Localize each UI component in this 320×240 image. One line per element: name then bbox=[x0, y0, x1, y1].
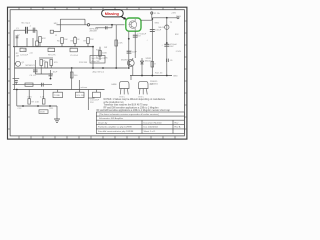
svg-text:2.2K: 2.2K bbox=[40, 97, 45, 99]
lamp DS1 bbox=[165, 25, 169, 29]
capacitor C15 bbox=[105, 26, 107, 29]
node dot H2/x93 bbox=[92, 46, 94, 48]
wire V x16.8 bbox=[16, 90, 18, 107]
wire loop top bbox=[60, 18, 85, 20]
wire stub R20 up bbox=[43, 90, 45, 99]
wire V x79.3 bbox=[78, 80, 80, 90]
sheet border frame outer bbox=[8, 7, 187, 139]
wire stub x112 up bbox=[111, 25, 113, 28]
capacitor C13 on H84.7 bbox=[42, 83, 44, 87]
wire stub S1 bbox=[57, 90, 59, 93]
resistor R6 bbox=[74, 38, 77, 44]
resistor R16 bbox=[45, 62, 48, 68]
svg-text:R12 .33: R12 .33 bbox=[155, 73, 163, 75]
resistor R9 below wire bbox=[48, 48, 55, 51]
svg-text:RF and EMI sensitive applicati: RF and EMI sensitive applications a 100k… bbox=[97, 109, 171, 112]
svg-text:1N4001: 1N4001 bbox=[145, 61, 153, 63]
wire stub y98 bbox=[88, 97, 94, 99]
terminal circle bbox=[151, 12, 153, 14]
svg-text:Rev A: Rev A bbox=[175, 126, 181, 129]
wire stub x75 bbox=[74, 36, 76, 38]
svg-text:a the production run: a the production run bbox=[104, 101, 125, 104]
wire V x35 bbox=[34, 60, 36, 74]
title block text bbox=[98, 113, 181, 133]
wire H2 bbox=[13, 46, 93, 48]
box B3 bbox=[93, 92, 101, 97]
svg-text:Schematics 5W Amplifier: Schematics 5W Amplifier bbox=[99, 117, 123, 120]
node dot bbox=[151, 18, 153, 20]
svg-text:.1 50V: .1 50V bbox=[175, 51, 182, 53]
wire stub B3 bbox=[96, 90, 98, 93]
svg-text:Amp 5W out: Amp 5W out bbox=[93, 71, 105, 74]
wire V x57 to gnd bbox=[56, 106, 58, 119]
wire stub R19 up bbox=[28, 90, 30, 99]
node dot x116b bbox=[115, 67, 117, 69]
border zone ticks right bbox=[184, 21, 187, 129]
node dot x112 bbox=[111, 24, 113, 26]
svg-text:10uF: 10uF bbox=[132, 52, 137, 54]
node dot H_mid x128.8 bbox=[128, 67, 130, 69]
diode D1 bbox=[140, 58, 143, 76]
svg-text:R13 33K: R13 33K bbox=[79, 62, 88, 64]
resistor R2 bbox=[36, 41, 39, 46]
svg-text:Transistor bias matches the BU: Transistor bias matches the BUX 48 70 am… bbox=[104, 104, 149, 107]
svg-text:Drawn by: Drawn by bbox=[98, 121, 108, 124]
resistor R17 bbox=[50, 60, 53, 66]
wire step horizontal bbox=[54, 31, 61, 33]
wire H1 main top bbox=[57, 24, 125, 26]
svg-text:25V: 25V bbox=[90, 102, 94, 104]
callout arrow bbox=[121, 16, 125, 18]
transistor Q1 bbox=[16, 61, 21, 66]
capacitor C14 bbox=[49, 74, 53, 76]
node dot x50.5 bbox=[50, 78, 52, 80]
wire stub x27 bbox=[26, 38, 28, 47]
svg-text:GND: GND bbox=[173, 76, 178, 78]
node dot H_mid x103 bbox=[102, 67, 104, 69]
svg-text:Doc 20020304: Doc 20020304 bbox=[144, 127, 159, 129]
wire cap to right bbox=[27, 29, 37, 31]
wire H4 bbox=[13, 89, 105, 91]
wire V right1 bbox=[166, 18, 168, 76]
svg-text:47K: 47K bbox=[42, 38, 46, 40]
wire V x136 emitter bbox=[134, 31, 136, 58]
border zone ticks bottom bbox=[19, 136, 175, 139]
svg-text:E B C: E B C bbox=[120, 96, 126, 98]
svg-text:22K: 22K bbox=[90, 39, 94, 41]
wire case stub bbox=[130, 76, 132, 81]
wire verticals cluster bbox=[40, 66, 42, 75]
svg-text:RF and EMI sensitive applicati: RF and EMI sensitive applications a 100k… bbox=[104, 107, 159, 110]
ground bbox=[54, 119, 60, 123]
svg-text:10uF: 10uF bbox=[53, 72, 58, 74]
node dot x129 bbox=[128, 38, 130, 40]
resistor R10 below wire bbox=[70, 48, 77, 52]
svg-text:Sheet 1 of 1: Sheet 1 of 1 bbox=[144, 130, 157, 133]
wire H3 bbox=[130, 75, 172, 77]
node dot x71 bbox=[71, 67, 73, 69]
resistor R20 bbox=[42, 99, 45, 104]
transistor Q2 output bbox=[127, 58, 134, 76]
wire stub x33 bbox=[32, 38, 34, 47]
terminal fuse stub bbox=[151, 14, 153, 18]
capacitor C9 bbox=[164, 44, 169, 46]
wire stub x40 bbox=[39, 43, 41, 47]
wire V x93 bbox=[92, 47, 94, 68]
node dot x93b bbox=[92, 67, 94, 69]
svg-text:560K: 560K bbox=[40, 112, 45, 114]
svg-text:Amp 5W: Amp 5W bbox=[92, 60, 100, 63]
callout bubble Missing bbox=[102, 10, 124, 17]
resistor R14 bbox=[151, 62, 154, 68]
wire V left bbox=[14, 47, 16, 90]
svg-text:100uF: 100uF bbox=[155, 30, 162, 32]
resistor R8 below wire bbox=[20, 48, 26, 51]
wire y27.8 coupling bbox=[96, 27, 113, 29]
svg-text:+35V: +35V bbox=[171, 13, 177, 15]
border zone ticks left bbox=[8, 21, 11, 129]
wire V x129 from green box bbox=[128, 31, 130, 68]
svg-text:2.2K: 2.2K bbox=[118, 43, 123, 45]
svg-text:5.1K: 5.1K bbox=[28, 97, 33, 99]
svg-text:R9 4.7K: R9 4.7K bbox=[48, 54, 56, 56]
resistor R19 bbox=[28, 99, 31, 104]
node dots H3 bbox=[141, 75, 143, 77]
sheet border frame inner bbox=[10, 10, 184, 136]
resistor R11 bbox=[99, 51, 102, 57]
svg-text:F1 2A: F1 2A bbox=[154, 12, 160, 15]
resistor R5 bbox=[61, 38, 64, 44]
transistor Q3 (missing, highlighted) bbox=[129, 18, 137, 31]
pot box P1 bbox=[76, 92, 85, 97]
wire V x50.5 bbox=[50, 70, 52, 79]
capacitor C10 top right of H3 bbox=[167, 59, 169, 62]
node dot x16 bbox=[16, 89, 18, 91]
resistor R21 horizontal bbox=[39, 110, 48, 114]
wire left vertical mic bbox=[13, 30, 15, 47]
wire H mid bbox=[15, 67, 128, 69]
svg-text:25V: 25V bbox=[137, 36, 141, 38]
wire H y58 cluster bbox=[39, 57, 53, 59]
capacitor C6 bbox=[127, 51, 132, 53]
svg-text:C6 .01: C6 .01 bbox=[30, 75, 37, 77]
svg-text:E B C: E B C bbox=[139, 96, 145, 98]
label box section bbox=[90, 56, 105, 64]
capacitor C7 bbox=[133, 35, 138, 37]
resistor R12v bbox=[115, 40, 118, 46]
notes text block bbox=[104, 98, 166, 109]
highlight box green bbox=[126, 18, 141, 31]
svg-text:C4 10uF: C4 10uF bbox=[20, 54, 29, 56]
svg-text:VOL 10K: VOL 10K bbox=[76, 95, 85, 97]
svg-text:CASE: CASE bbox=[111, 83, 117, 86]
wire H y74 bbox=[35, 73, 53, 75]
wire stub x17 bbox=[16, 36, 18, 47]
wire stub x88 bbox=[87, 44, 89, 47]
svg-text:50V: 50V bbox=[170, 46, 174, 48]
wire loop right vertical bbox=[84, 19, 86, 25]
svg-text:Fairbanks amplifier co php: Fairbanks amplifier co php 10/9/98 bbox=[98, 126, 132, 129]
svg-text:2N5089: 2N5089 bbox=[90, 31, 98, 33]
svg-text:MPS6521: MPS6521 bbox=[26, 65, 36, 67]
svg-text:R060: R060 bbox=[176, 16, 182, 18]
svg-text:1W: 1W bbox=[104, 47, 107, 49]
svg-text:TONE: TONE bbox=[54, 95, 60, 97]
resistor R18 bbox=[70, 72, 73, 78]
capacitor C8 bbox=[150, 30, 155, 32]
wire H5 bbox=[17, 105, 57, 107]
capacitor C3 bbox=[16, 36, 19, 38]
svg-text:Fairchild semiconductor php: Fairchild semiconductor php 10/9/98 bbox=[98, 130, 134, 133]
switch box S1 bbox=[53, 92, 63, 97]
svg-text:82K: 82K bbox=[175, 34, 179, 36]
wire mic input horizontal bbox=[14, 29, 26, 31]
resistor R3 bbox=[50, 30, 53, 33]
wire V right2 bbox=[151, 20, 153, 75]
capacitor C2 plates bbox=[33, 28, 35, 33]
svg-text:Document Number: Document Number bbox=[144, 121, 163, 124]
svg-text:NOTES: 1 Values may be differe: NOTES: 1 Values may be different dependi… bbox=[104, 98, 166, 101]
capacitor C4 bbox=[33, 70, 38, 72]
border zone ticks top bbox=[19, 7, 175, 10]
svg-text:(The latest schematic revision: (The latest schematic revision supersede… bbox=[99, 113, 159, 116]
wire V x71 bbox=[71, 68, 73, 90]
wire V x116 under H1 bbox=[115, 25, 117, 68]
resistor R15 bbox=[40, 60, 43, 66]
wire loop left vertical bbox=[59, 19, 61, 32]
svg-text:R7 1.5K: R7 1.5K bbox=[32, 102, 40, 104]
node dots H5 bbox=[22, 105, 24, 107]
svg-text:100K: 100K bbox=[102, 53, 107, 55]
node dot bbox=[166, 17, 168, 19]
wire right vertical mic bbox=[36, 30, 38, 41]
svg-text:Mic Input: Mic Input bbox=[22, 21, 31, 24]
resistor R7 bbox=[87, 38, 90, 44]
svg-text:MJ2955: MJ2955 bbox=[121, 60, 129, 62]
wire V x88 bbox=[87, 90, 89, 111]
wire V x100 bbox=[99, 47, 101, 60]
transistor case TO-92 B bbox=[139, 81, 149, 94]
resistor R22 on H84.7 bbox=[25, 83, 33, 86]
svg-text:Vol / Mystic Filt: Vol / Mystic Filt bbox=[92, 57, 106, 60]
node terminal J1 bbox=[87, 24, 89, 26]
transistor case TO-92 A bbox=[120, 81, 130, 94]
svg-text:volume: volume bbox=[81, 87, 89, 89]
svg-text:C5 47uF: C5 47uF bbox=[70, 55, 79, 57]
wire stub x62b bbox=[61, 44, 63, 47]
wire stub P1 bbox=[79, 90, 81, 93]
resistor R4 bbox=[39, 37, 42, 43]
wire stub y78.6 left bbox=[13, 78, 20, 80]
title block outline bbox=[96, 112, 184, 134]
svg-text:1M: 1M bbox=[16, 55, 19, 57]
wire H top right bbox=[141, 19, 152, 21]
svg-text:10K: 10K bbox=[64, 39, 68, 41]
wire H y84.7 bbox=[13, 84, 53, 86]
svg-text:Missing: Missing bbox=[105, 12, 120, 16]
capacitor C1 bbox=[26, 27, 28, 34]
capacitor C12 below stub bbox=[15, 81, 18, 85]
